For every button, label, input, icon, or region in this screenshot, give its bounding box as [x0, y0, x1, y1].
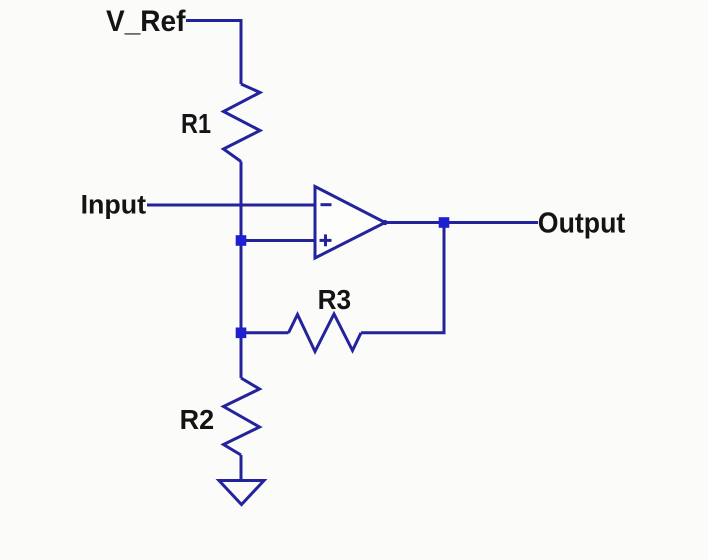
svg-text:V_Ref: V_Ref: [106, 5, 186, 38]
svg-text:R2: R2: [180, 404, 215, 435]
svg-text:R1: R1: [181, 108, 211, 139]
wire op-amp output to Output: [385, 221, 538, 224]
op-amp U1: [315, 187, 388, 259]
wire node B to R2 top: [240, 333, 243, 378]
wire output junction down to R3 right: [361, 223, 444, 333]
resistor R3: [289, 314, 362, 352]
wire Input to op-amp inverting input: [147, 204, 315, 207]
svg-text:Output: Output: [538, 208, 626, 240]
svg-text:Input: Input: [81, 189, 147, 219]
resistor R2: [224, 378, 260, 455]
svg-text:R3: R3: [318, 284, 352, 315]
node B junction: [236, 328, 247, 339]
wire node A to op-amp non-inverting input: [241, 239, 315, 242]
node A junction (divider to non-inverting input): [236, 235, 247, 246]
wire V_Ref to R1 top: [186, 21, 241, 85]
ground: [219, 481, 264, 505]
node output junction: [439, 217, 450, 228]
wire R3 left to node B: [241, 331, 289, 334]
wire R1 bottom to node A: [240, 162, 243, 241]
wire node A to node B: [240, 241, 243, 333]
wire R2 bottom to ground: [240, 455, 243, 481]
resistor R1: [224, 84, 261, 162]
